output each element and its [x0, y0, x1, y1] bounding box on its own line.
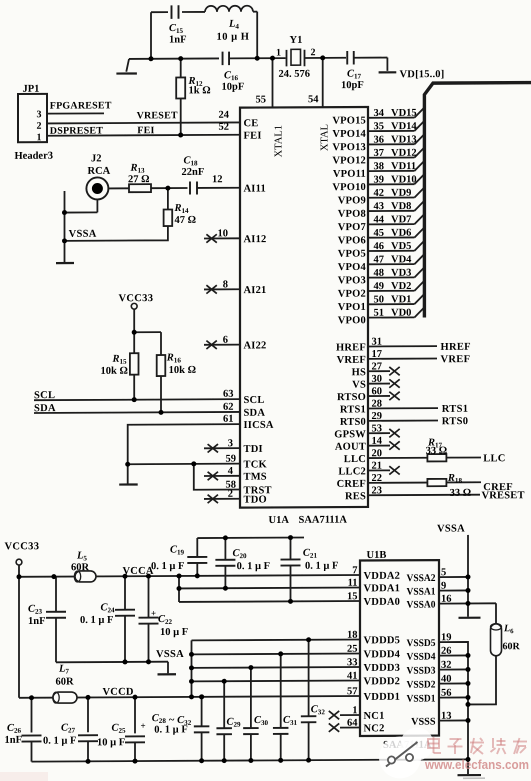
svg-text:VPO8: VPO8	[338, 209, 366, 220]
svg-text:RES: RES	[345, 491, 366, 502]
svg-text:SAA7111A: SAA7111A	[299, 515, 348, 526]
svg-text:VSSD4: VSSD4	[407, 652, 436, 663]
svg-text:10: 10	[218, 228, 228, 239]
svg-text:12: 12	[212, 174, 222, 185]
svg-text:VD5: VD5	[391, 241, 411, 252]
svg-text:13: 13	[441, 711, 451, 722]
svg-text:VD11: VD11	[391, 161, 416, 172]
svg-text:2: 2	[37, 121, 42, 132]
svg-text:10 µ H: 10 µ H	[217, 32, 250, 43]
svg-text:TCK: TCK	[244, 459, 268, 470]
svg-text:36: 36	[374, 135, 384, 146]
svg-text:45: 45	[374, 228, 384, 239]
svg-text:VD7: VD7	[391, 214, 411, 225]
svg-text:35: 35	[374, 121, 384, 132]
svg-text:54: 54	[308, 94, 319, 105]
svg-text:VD9: VD9	[391, 188, 411, 199]
svg-text:48: 48	[374, 268, 384, 279]
svg-text:29: 29	[372, 411, 382, 422]
svg-text:7: 7	[352, 565, 357, 576]
svg-text:RTS0: RTS0	[442, 416, 469, 427]
svg-text:11: 11	[348, 578, 358, 589]
svg-text:21: 21	[372, 461, 382, 472]
svg-text:1: 1	[352, 705, 357, 716]
svg-text:2: 2	[228, 489, 233, 500]
svg-text:62: 62	[223, 402, 233, 413]
svg-text:34: 34	[374, 108, 385, 119]
svg-text:VDDA1: VDDA1	[364, 583, 401, 594]
svg-text:10pF: 10pF	[222, 82, 245, 93]
svg-text:49: 49	[374, 281, 384, 292]
svg-text:10k Ω: 10k Ω	[101, 366, 128, 377]
svg-text:37: 37	[374, 148, 384, 159]
svg-text:8: 8	[223, 279, 228, 290]
svg-text:0. 1 µ F: 0. 1 µ F	[80, 615, 113, 626]
svg-text:VCC33: VCC33	[5, 541, 40, 552]
svg-text:0. 1 µ F: 0. 1 µ F	[305, 561, 338, 572]
svg-text:51: 51	[374, 308, 384, 319]
svg-text:VD2: VD2	[391, 281, 411, 292]
svg-text:VDDD1: VDDD1	[364, 692, 401, 703]
svg-text:0. 1 µ F: 0. 1 µ F	[43, 735, 76, 746]
svg-text:J2: J2	[91, 153, 101, 164]
svg-text:50: 50	[374, 294, 384, 305]
svg-text:DSPRESET: DSPRESET	[50, 125, 103, 136]
svg-text:LLC: LLC	[344, 454, 366, 465]
svg-text:VD[15..0]: VD[15..0]	[400, 69, 445, 80]
svg-text:AOUT: AOUT	[335, 442, 366, 453]
svg-text:43: 43	[374, 201, 384, 212]
svg-text:SDA: SDA	[34, 403, 56, 414]
svg-text:Y1: Y1	[290, 35, 303, 46]
svg-text:IICSA: IICSA	[244, 420, 274, 431]
svg-text:FEI: FEI	[244, 131, 262, 142]
svg-text:44: 44	[374, 214, 385, 225]
svg-text:AI21: AI21	[244, 285, 267, 296]
svg-text:60: 60	[372, 386, 382, 397]
svg-text:VREF: VREF	[337, 355, 366, 366]
svg-text:33 Ω: 33 Ω	[426, 446, 448, 457]
svg-text:60R: 60R	[503, 641, 521, 652]
svg-text:22: 22	[372, 473, 382, 484]
svg-text:U1A: U1A	[269, 515, 290, 526]
svg-text:CREF: CREF	[337, 479, 366, 490]
svg-text:VPO15: VPO15	[332, 115, 366, 126]
svg-text:10 µ F: 10 µ F	[160, 627, 188, 638]
svg-text:SCL: SCL	[34, 390, 55, 401]
svg-text:HS: HS	[352, 367, 366, 378]
svg-text:25: 25	[347, 644, 357, 655]
svg-text:VPO10: VPO10	[332, 182, 366, 193]
svg-text:VDDA0: VDDA0	[364, 597, 401, 608]
svg-text:60R: 60R	[56, 677, 74, 688]
svg-text:3: 3	[228, 438, 233, 449]
svg-text:42: 42	[374, 188, 384, 199]
svg-text:NC1: NC1	[364, 711, 385, 722]
svg-text:RTSO: RTSO	[337, 392, 366, 403]
svg-text:RTS0: RTS0	[340, 417, 366, 428]
svg-text:VSSD3: VSSD3	[407, 666, 436, 677]
svg-text:VDDA2: VDDA2	[364, 571, 401, 582]
svg-text:15: 15	[347, 591, 357, 602]
svg-text:RCA: RCA	[88, 166, 111, 177]
svg-text:1nF: 1nF	[169, 34, 187, 45]
svg-text:9: 9	[441, 581, 446, 592]
svg-text:VSSD5: VSSD5	[407, 638, 436, 649]
svg-text:VCCA: VCCA	[123, 566, 154, 577]
svg-text:VSSA: VSSA	[437, 523, 465, 534]
svg-text:19: 19	[441, 632, 451, 643]
svg-text:59: 59	[226, 454, 236, 465]
svg-text:VSSA: VSSA	[69, 229, 97, 240]
svg-text:VPO2: VPO2	[338, 289, 366, 300]
svg-text:28: 28	[372, 399, 382, 410]
svg-text:+: +	[141, 721, 146, 731]
svg-text:U1B: U1B	[367, 550, 387, 561]
svg-text:AI22: AI22	[244, 340, 267, 351]
svg-text:1k Ω: 1k Ω	[189, 85, 211, 96]
svg-text:VSSA1: VSSA1	[407, 587, 436, 598]
svg-text:57: 57	[347, 686, 357, 697]
svg-text:Header3: Header3	[15, 151, 53, 162]
svg-text:VD0: VD0	[391, 308, 411, 319]
svg-text:23: 23	[372, 485, 382, 496]
svg-text:0. 1 µ F: 0. 1 µ F	[237, 561, 270, 572]
svg-text:SCL: SCL	[244, 395, 265, 406]
svg-text:CE: CE	[244, 118, 259, 129]
svg-text:JP1: JP1	[23, 84, 40, 95]
svg-text:VPO14: VPO14	[332, 129, 366, 140]
svg-text:24. 576: 24. 576	[279, 69, 310, 80]
svg-text:22nF: 22nF	[182, 167, 205, 178]
svg-text:6: 6	[223, 335, 228, 346]
svg-text:17: 17	[372, 349, 382, 360]
svg-text:VDDD4: VDDD4	[364, 649, 401, 660]
svg-text:VD10: VD10	[391, 174, 417, 185]
svg-text:TDO: TDO	[244, 494, 267, 505]
svg-text:VDDD3: VDDD3	[364, 663, 401, 674]
svg-text:VPO5: VPO5	[338, 249, 366, 260]
svg-text:VD13: VD13	[391, 134, 417, 145]
svg-text:10pF: 10pF	[341, 80, 364, 91]
svg-text:18: 18	[347, 630, 357, 641]
svg-text:10k Ω: 10k Ω	[169, 365, 196, 376]
svg-text:VD14: VD14	[391, 121, 417, 132]
svg-text:VPO6: VPO6	[338, 235, 366, 246]
svg-text:VPO9: VPO9	[338, 195, 366, 206]
svg-text:RTS1: RTS1	[442, 404, 469, 415]
svg-text:1: 1	[37, 132, 42, 143]
svg-text:39: 39	[374, 175, 384, 186]
svg-text:VPO4: VPO4	[338, 262, 367, 273]
svg-text:LLC2: LLC2	[338, 466, 366, 477]
svg-text:26: 26	[441, 646, 451, 657]
svg-text:VD15: VD15	[391, 108, 417, 119]
svg-text:VRESET: VRESET	[482, 490, 525, 501]
svg-text:VRESET: VRESET	[137, 110, 178, 121]
svg-text:VPO12: VPO12	[332, 155, 366, 166]
svg-text:1: 1	[276, 47, 281, 58]
svg-text:VSSA2: VSSA2	[407, 573, 436, 584]
svg-text:GPSW: GPSW	[334, 429, 366, 440]
svg-text:0. 1 µ F: 0. 1 µ F	[151, 561, 184, 572]
svg-text:VSSD2: VSSD2	[407, 680, 436, 691]
svg-text:VCCD: VCCD	[103, 687, 134, 698]
svg-text:63: 63	[223, 389, 233, 400]
svg-text:31: 31	[372, 337, 382, 348]
svg-text:XTAL: XTAL	[320, 124, 331, 151]
svg-text:VD4: VD4	[391, 254, 412, 265]
svg-text:53: 53	[372, 423, 382, 434]
svg-text:1nF: 1nF	[28, 616, 46, 627]
svg-text:VSSS: VSSS	[411, 717, 436, 728]
svg-text:SDA: SDA	[244, 408, 266, 419]
svg-text:56: 56	[441, 688, 451, 699]
svg-text:VPO7: VPO7	[338, 222, 366, 233]
svg-text:47 Ω: 47 Ω	[175, 215, 197, 226]
svg-text:64: 64	[347, 718, 358, 729]
svg-text:VS: VS	[352, 380, 366, 391]
svg-text:LLC: LLC	[483, 453, 505, 464]
svg-text:TDI: TDI	[244, 444, 263, 455]
svg-text:27 Ω: 27 Ω	[128, 174, 150, 185]
svg-text:10 µ F: 10 µ F	[97, 737, 125, 748]
svg-text:2: 2	[311, 47, 316, 58]
svg-text:www.elecfans.com: www.elecfans.com	[424, 758, 529, 772]
svg-text:VSSA0: VSSA0	[407, 600, 436, 611]
svg-text:VPO1: VPO1	[338, 302, 366, 313]
svg-text:VREF: VREF	[441, 354, 471, 365]
svg-text:27: 27	[372, 361, 382, 372]
svg-text:NC2: NC2	[364, 723, 385, 734]
svg-text:TMS: TMS	[244, 472, 267, 483]
svg-text:33: 33	[347, 657, 357, 668]
svg-text:VPO11: VPO11	[333, 169, 366, 180]
svg-text:14: 14	[372, 436, 383, 447]
svg-text:40: 40	[441, 674, 451, 685]
svg-text:47: 47	[374, 254, 384, 265]
svg-text:1nF: 1nF	[5, 735, 23, 746]
svg-text:HREF: HREF	[441, 342, 471, 353]
svg-text:3: 3	[37, 109, 42, 120]
svg-text:41: 41	[347, 671, 357, 682]
svg-text:30: 30	[372, 374, 382, 385]
svg-text:52: 52	[219, 122, 229, 133]
svg-text:33 Ω: 33 Ω	[450, 488, 472, 499]
svg-text:VPO13: VPO13	[332, 142, 366, 153]
svg-text:VPO0: VPO0	[338, 315, 366, 326]
svg-text:VD1: VD1	[391, 294, 411, 305]
svg-text:16: 16	[441, 594, 451, 605]
svg-text:HREF: HREF	[336, 342, 366, 353]
svg-text:32: 32	[441, 660, 451, 671]
svg-text:24: 24	[219, 110, 230, 121]
svg-text:4: 4	[228, 466, 234, 477]
svg-text:46: 46	[374, 241, 384, 252]
svg-text:VD8: VD8	[391, 201, 411, 212]
svg-text:5: 5	[441, 567, 446, 578]
svg-text:VDDD2: VDDD2	[364, 676, 401, 687]
svg-text:VD12: VD12	[391, 148, 417, 159]
svg-text:RTS1: RTS1	[340, 404, 366, 415]
svg-text:61: 61	[223, 414, 233, 425]
svg-text:0. 1 µ F: 0. 1 µ F	[154, 724, 187, 735]
svg-text:XTAL1: XTAL1	[274, 125, 285, 157]
svg-text:VD6: VD6	[391, 228, 411, 239]
svg-text:20: 20	[372, 448, 382, 459]
svg-text:55: 55	[256, 94, 266, 105]
svg-text:VCC33: VCC33	[119, 293, 154, 304]
svg-text:VDDD5: VDDD5	[364, 635, 401, 646]
svg-text:AI12: AI12	[244, 234, 267, 245]
svg-text:VSSA: VSSA	[156, 649, 184, 660]
svg-text:38: 38	[374, 161, 384, 172]
svg-text:FPGARESET: FPGARESET	[50, 100, 112, 111]
svg-text:VPO3: VPO3	[338, 275, 366, 286]
svg-text:VD3: VD3	[391, 268, 411, 279]
svg-text:VSSD1: VSSD1	[407, 694, 436, 705]
svg-text:AI11: AI11	[244, 183, 266, 194]
svg-text:FEI: FEI	[137, 125, 154, 136]
svg-text:+: +	[151, 608, 156, 618]
